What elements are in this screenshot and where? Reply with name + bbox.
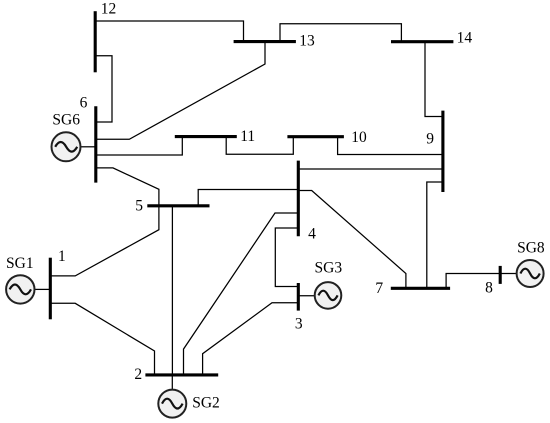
- svg-text:10: 10: [351, 129, 367, 146]
- svg-text:4: 4: [308, 225, 316, 242]
- svg-text:SG2: SG2: [192, 395, 220, 412]
- svg-text:12: 12: [101, 1, 117, 18]
- svg-text:2: 2: [134, 366, 142, 383]
- svg-text:6: 6: [80, 95, 88, 112]
- svg-text:14: 14: [457, 29, 473, 46]
- svg-text:9: 9: [426, 131, 434, 148]
- svg-text:7: 7: [375, 280, 383, 297]
- svg-text:SG6: SG6: [52, 111, 80, 128]
- svg-text:11: 11: [240, 128, 255, 145]
- svg-text:3: 3: [295, 315, 303, 332]
- svg-text:SG8: SG8: [517, 240, 545, 257]
- svg-text:13: 13: [299, 33, 315, 50]
- svg-text:SG3: SG3: [315, 260, 343, 277]
- svg-text:5: 5: [135, 198, 143, 215]
- svg-text:SG1: SG1: [6, 255, 34, 272]
- svg-text:1: 1: [58, 248, 66, 265]
- svg-text:8: 8: [485, 280, 493, 297]
